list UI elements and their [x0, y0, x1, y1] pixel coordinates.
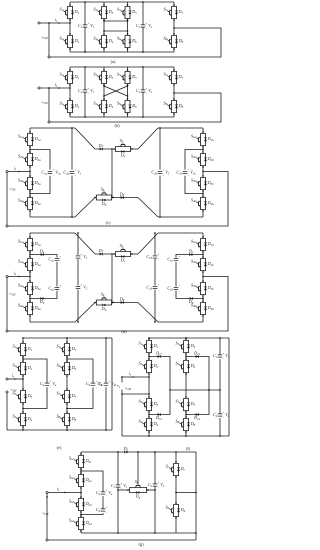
capacitor Cb1	[167, 256, 180, 264]
wire source down	[121, 390, 123, 437]
svg-text:-: -	[53, 173, 54, 177]
wire mid link	[170, 389, 220, 391]
transistor S3a with diode D3a	[18, 175, 41, 192]
wire v_CM branch	[6, 173, 8, 227]
transistor S1 with diode D1	[12, 341, 32, 358]
wire flying capacitor loop left	[30, 150, 50, 170]
wire bowtie center vertical	[111, 254, 113, 303]
node input terminal i_s	[38, 22, 40, 24]
capacitor C1	[111, 482, 128, 490]
wire bottom rail	[81, 532, 196, 534]
svg-text:-: -	[223, 416, 224, 420]
svg-text:(g): (g)	[138, 542, 144, 547]
wire right stack top stub	[202, 233, 204, 237]
wire v_CM branch	[46, 496, 48, 498]
svg-text:vCM: vCM	[125, 386, 131, 391]
capacitor C2	[148, 481, 165, 489]
transistor S1a with diode D1a	[18, 236, 41, 253]
wire bottom rail	[7, 429, 112, 431]
wire crossed link upper-lower	[104, 86, 128, 96]
wire legB	[103, 2, 105, 5]
transistor S6 with diode D6	[117, 33, 137, 50]
clamp diode Dd	[188, 297, 194, 305]
svg-text:-: -	[81, 288, 82, 292]
diode D8	[119, 296, 125, 304]
svg-text:-: -	[188, 173, 189, 177]
wire outer capacitor branch left	[71, 128, 73, 170]
svg-text:vCM: vCM	[43, 511, 49, 516]
transistor S1b with diode D1b	[191, 236, 214, 253]
transistor S4 with diode D4	[93, 33, 113, 50]
svg-text:-: -	[223, 357, 224, 361]
node return terminal	[6, 225, 8, 227]
wire mid link cell1-cell2 upper	[104, 20, 128, 22]
clamp diode Dc2	[155, 413, 162, 421]
svg-text:(c): (c)	[106, 220, 111, 225]
transistor S3 with diode D3	[93, 4, 113, 21]
svg-text:-: -	[106, 494, 107, 498]
capacitor Ca1	[48, 256, 61, 264]
svg-text:-: -	[106, 511, 107, 515]
transistor S2a with diode D2a	[18, 256, 41, 273]
wire dc capacitor branch	[105, 338, 107, 383]
transistor S6 with diode D6	[94, 291, 114, 312]
wire crossed link lower-upper	[104, 86, 128, 96]
wire clamp lower right	[176, 291, 203, 299]
svg-text:(e): (e)	[57, 445, 62, 450]
svg-text:vCM: vCM	[10, 187, 16, 192]
transistor S5 with diode D5	[117, 4, 137, 21]
transistor S3 with diode D3	[138, 396, 158, 413]
capacitor C1b	[146, 253, 159, 261]
svg-text:(a): (a)	[111, 59, 116, 64]
capacitor Ca2	[48, 285, 61, 293]
transistor Sa2 with diode Da2	[69, 472, 92, 489]
capacitor C1a	[41, 169, 61, 177]
clamp diode Dc	[188, 248, 194, 256]
transistor S1 with diode D1	[59, 69, 79, 86]
transistor S1b with diode D1b	[191, 131, 214, 148]
wire bowtie top left segment	[95, 253, 112, 255]
wire top rail	[23, 337, 112, 339]
wire v_CM branch	[48, 87, 50, 89]
transistor S7 with diode D7	[163, 69, 183, 86]
transistor S5 with diode D5	[113, 138, 133, 159]
wire clamp lower col1	[149, 390, 170, 415]
wire input to legA midpoint	[40, 87, 70, 89]
svg-text:-: -	[179, 260, 180, 264]
svg-text:-: -	[179, 289, 180, 293]
wire left stack top stub	[29, 128, 31, 132]
wire lower terminal wire	[122, 393, 149, 395]
wire return rail	[8, 277, 228, 332]
transistor S4a with diode D4a	[18, 195, 41, 212]
wire bottom rail right	[158, 216, 203, 218]
wire capacitor C1 branch	[84, 67, 86, 90]
wire diagonal top-left	[75, 233, 95, 254]
capacitor Cb	[86, 381, 103, 389]
wire stack column	[29, 252, 31, 257]
wire right stack top stub	[202, 128, 204, 132]
svg-text:-: -	[60, 260, 61, 264]
svg-text:(b): (b)	[114, 123, 120, 128]
wire legD	[173, 67, 175, 70]
svg-text:vCM: vCM	[42, 35, 48, 40]
node source v_CM	[6, 391, 8, 393]
wire return rail	[50, 28, 221, 57]
diode D1	[123, 446, 129, 454]
wire bottom rail left	[30, 216, 75, 218]
wire input wire	[48, 492, 81, 494]
wire capacitor branch C2	[154, 452, 156, 484]
wire bottom rail	[70, 51, 174, 53]
wire diagonal bottom-left	[75, 303, 95, 323]
capacitor C2b	[146, 284, 159, 292]
wire clamp lower col2	[186, 390, 209, 415]
wire flying capacitor loop Ca	[23, 359, 47, 383]
transistor S4 with diode D4	[93, 98, 113, 115]
capacitor Cdc	[98, 381, 118, 389]
wire capacitor C2 branch	[142, 67, 144, 90]
transistor S2b with diode D2b	[191, 151, 214, 168]
capacitor Cb2	[167, 285, 180, 293]
svg-text:-: -	[81, 258, 82, 262]
node input terminal i_s	[6, 378, 8, 380]
transistor S5 with diode D5	[56, 341, 76, 358]
svg-text:-: -	[109, 385, 110, 389]
diode D8	[119, 191, 125, 199]
wire bowtie bottom right segment	[113, 197, 138, 199]
wire clamp upper left	[30, 255, 57, 258]
transistor Sg	[127, 479, 149, 500]
wire gate feed	[137, 452, 139, 484]
wire legA	[69, 2, 71, 5]
svg-text:(f): (f)	[186, 446, 191, 451]
wire bottom rail	[70, 116, 174, 118]
wire right edge	[111, 338, 113, 430]
wire column x186	[185, 338, 187, 339]
clamp diode Dc4	[193, 413, 200, 421]
transistor S8 with diode D8	[163, 98, 183, 115]
wire clamp capacitor branch right	[175, 262, 177, 287]
wire legC	[127, 2, 129, 5]
wire diagonal top-left	[75, 128, 95, 149]
svg-text:-: -	[146, 27, 147, 31]
capacitor C2a	[63, 169, 81, 177]
wire mid to right edge	[176, 492, 196, 494]
wire diagonal top-right	[138, 233, 158, 254]
wire capacitor branch C1	[219, 338, 221, 355]
wire legC	[127, 67, 129, 70]
wire clamp lower left	[30, 291, 57, 299]
transistor S3a with diode D3a	[18, 280, 41, 297]
transistor S4 with diode D4	[12, 411, 32, 428]
capacitor C2b	[151, 169, 169, 177]
svg-text:-: -	[50, 385, 51, 389]
clamp diode Da	[39, 248, 45, 256]
wire input wire	[122, 376, 149, 378]
clamp diode Dc1	[155, 350, 162, 358]
transistor Sc with diode Dc	[166, 461, 186, 478]
wire right edge	[228, 338, 230, 436]
wire right edge	[195, 452, 197, 540]
transistor S7 with diode D7	[56, 388, 76, 405]
wire dc-link capacitor branch left	[77, 233, 79, 255]
svg-text:-: -	[158, 258, 159, 262]
wire input to left stack	[8, 276, 30, 278]
node source v_CM terminal	[121, 393, 123, 395]
wire dc-link capacitor branch right	[154, 233, 156, 255]
wire column x149	[148, 338, 150, 339]
wire capacitor branch C2	[219, 390, 221, 414]
transistor S8 with diode D8	[175, 416, 195, 433]
wire v_CM branch	[48, 22, 50, 24]
capacitor C1 voltage V1	[78, 22, 95, 30]
svg-text:-: -	[75, 173, 76, 177]
svg-text:-: -	[158, 486, 159, 490]
wire legB	[103, 67, 105, 70]
transistor S4b with diode D4b	[191, 300, 214, 317]
wire column x23	[22, 338, 24, 342]
wire mid link cell1-cell2 lower	[104, 30, 128, 32]
transistor S3 with diode D3	[12, 388, 32, 405]
svg-text:-: -	[60, 289, 61, 293]
wire diagonal bottom-right	[138, 198, 158, 218]
wire bowtie top right segment	[132, 148, 138, 150]
wire bowtie center vertical	[111, 149, 113, 198]
transistor S1 with diode D1	[59, 4, 79, 21]
transistor Sa3 with diode Da3	[69, 496, 92, 513]
transistor S4a with diode D4a	[18, 300, 41, 317]
transistor S5 with diode D5	[113, 243, 133, 264]
wire left stack	[80, 452, 82, 454]
wire diagonal bottom-left	[75, 198, 95, 218]
transistor S2 with diode D2	[138, 358, 158, 375]
capacitor C1b	[176, 169, 196, 177]
wire capacitor C1 branch	[84, 2, 86, 25]
wire input wire	[8, 378, 23, 380]
wire flying capacitor loop	[81, 471, 103, 492]
svg-text:-: -	[88, 92, 89, 96]
wire bottom rail right	[158, 321, 203, 323]
svg-text:vCM: vCM	[10, 292, 16, 297]
wire v_CM branch	[6, 278, 8, 332]
svg-text:-: -	[158, 288, 159, 292]
wire top rail	[70, 66, 174, 68]
transistor S1a with diode D1a	[18, 131, 41, 148]
wire diagonal top-right	[138, 128, 158, 149]
wire bowtie top left segment	[95, 148, 112, 150]
wire stack column	[29, 147, 31, 152]
transistor S2a with diode D2a	[18, 151, 41, 168]
wire return rail	[46, 539, 48, 541]
capacitor C2	[213, 411, 230, 419]
capacitor V2 left	[76, 284, 88, 292]
wire bottom rail	[122, 435, 229, 437]
transistor Sd with diode Dd	[165, 502, 185, 519]
capacitor C1 voltage V1	[78, 87, 95, 95]
wire clamp upper col2	[186, 357, 209, 391]
transistor S3 with diode D3	[93, 69, 113, 86]
wire source stub upper	[121, 377, 123, 383]
wire input to legA midpoint	[40, 22, 70, 24]
svg-text:(d): (d)	[121, 329, 127, 334]
svg-text:-: -	[146, 92, 147, 96]
capacitor V1 left	[76, 253, 88, 261]
wire clamp capacitor branch left	[56, 262, 58, 287]
transistor S3b with diode D3b	[191, 280, 214, 297]
wire capacitor C2 branch	[142, 2, 144, 25]
transistor S5 with diode D5	[117, 69, 137, 86]
wire input to left stack	[8, 171, 30, 173]
wire bowtie top right segment	[132, 253, 138, 255]
diode D7	[98, 143, 104, 151]
wire top rail left	[30, 127, 75, 129]
wire top rail	[81, 451, 196, 453]
wire capacitor branch C1	[117, 452, 119, 485]
wire clamp upper right	[176, 255, 203, 258]
node return terminal	[6, 330, 8, 332]
node return terminal	[48, 56, 50, 58]
transistor S2b with diode D2b	[191, 256, 214, 273]
transistor S6 with diode D6	[117, 98, 137, 115]
transistor S7 with diode D7	[175, 396, 195, 413]
transistor S1 with diode D1	[138, 338, 158, 355]
clamp diode Dc3	[193, 350, 200, 358]
transistor S2 with diode D2	[59, 98, 79, 115]
node input terminal i_s	[46, 491, 48, 493]
wire top rail	[70, 1, 174, 3]
wire flying capacitor loop right	[185, 150, 203, 170]
wire return rail	[8, 172, 228, 227]
wire legD	[173, 2, 175, 5]
svg-text:-: -	[88, 27, 89, 31]
wire legA	[69, 67, 71, 70]
transistor Sa4 with diode Da4	[69, 515, 92, 532]
transistor S6 with diode D6	[56, 360, 76, 377]
wire stack column	[202, 252, 204, 257]
wire diagonal bottom-right	[138, 303, 158, 323]
transistor S3b with diode D3b	[191, 175, 214, 192]
transistor S6 with diode D6	[94, 186, 114, 207]
wire stack column	[202, 147, 204, 152]
wire column x67	[66, 338, 68, 342]
capacitor C2 voltage V2	[136, 22, 153, 30]
wire top rail right	[158, 232, 203, 234]
transistor S8 with diode D8	[163, 33, 183, 50]
capacitor C2 voltage V2	[136, 87, 153, 95]
transistor S2 with diode D2	[12, 360, 32, 377]
transistor S2 with diode D2	[59, 33, 79, 50]
transistor S4b with diode D4b	[191, 195, 214, 212]
svg-text:vCM: vCM	[42, 100, 48, 105]
capacitor C1	[213, 352, 230, 360]
node input terminal i_s	[6, 275, 8, 277]
clamp diode Db	[39, 297, 45, 305]
diode D7	[98, 248, 104, 256]
capacitor Cb	[96, 506, 108, 514]
wire bottom rail left	[30, 321, 75, 323]
wire top rail	[149, 337, 229, 339]
transistor S8 with diode D8	[56, 411, 76, 428]
wire bowtie bottom right segment	[113, 302, 138, 304]
wire unit leads	[118, 489, 128, 491]
node input terminal i_s	[121, 376, 123, 378]
wire clamp upper col1	[149, 357, 170, 391]
wire top rail right	[158, 127, 203, 129]
wire right column	[175, 452, 177, 462]
capacitor Ca	[96, 489, 113, 497]
transistor Sa1 with diode Da1	[69, 453, 92, 470]
transistor S7 with diode D7	[163, 4, 183, 21]
wire top rail left	[30, 232, 75, 234]
node return terminal	[48, 121, 50, 123]
node input terminal i_s	[38, 87, 40, 89]
wire left stack top stub	[29, 233, 31, 237]
svg-text:vCM: vCM	[11, 387, 17, 392]
transistor S4 with diode D4	[138, 416, 158, 433]
wire source down	[6, 393, 8, 430]
svg-text:-: -	[163, 173, 164, 177]
transistor S6 with diode D6	[175, 358, 195, 375]
wire flying capacitor loop Cb	[67, 359, 93, 383]
node input terminal i_s	[6, 170, 8, 172]
capacitor Ca	[40, 381, 57, 389]
wire outer capacitor branch right	[159, 128, 161, 170]
transistor S5 with diode D5	[175, 338, 195, 355]
wire return rail	[50, 93, 221, 122]
